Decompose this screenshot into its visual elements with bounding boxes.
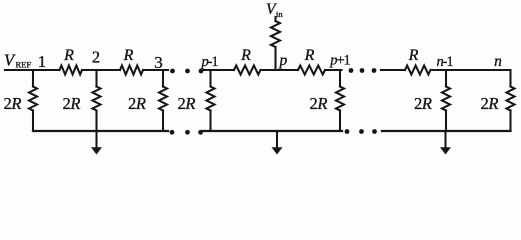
resistor R3 (between node p-1 and node p) [234, 66, 261, 75]
ground arrow below node 2 [91, 131, 102, 155]
svg-text:REF: REF [16, 60, 32, 70]
resistor 2R (node n-1 branch, with its connecting wires) [442, 70, 450, 131]
svg-text:2: 2 [92, 48, 100, 67]
svg-text:n: n [494, 53, 502, 70]
wire top rail: break to R (p-1,p) [204, 69, 234, 71]
svg-text:R: R [123, 47, 134, 64]
svg-text:R: R [304, 47, 315, 64]
svg-text:R: R [240, 47, 251, 64]
svg-text:in: in [276, 9, 283, 19]
ellipsis dots top right [349, 68, 377, 73]
wire bottom rail left segment [33, 130, 168, 132]
wire top rail: node 2 span [82, 69, 120, 71]
wire bottom rail middle segment [202, 130, 342, 132]
ground arrow below node p [272, 131, 283, 155]
svg-text:R: R [408, 47, 419, 64]
resistor R1 (between node 1 and node 2) [60, 66, 83, 75]
wire top rail: node p span [261, 69, 299, 71]
label VREF [4, 51, 31, 70]
wire top rail: node n-1 to node n corner [431, 69, 511, 71]
svg-text:2R: 2R [128, 94, 146, 113]
svg-text:2R: 2R [309, 94, 327, 113]
svg-text:R: R [63, 47, 74, 64]
resistor from Vin source to node p (with connecting wires) [271, 17, 280, 70]
svg-text:2R: 2R [177, 94, 195, 113]
wire bottom rail right segment [382, 130, 511, 132]
wire top rail: node 3 to break [143, 69, 168, 71]
wire top rail: node p+1 to break [325, 69, 342, 71]
svg-text:2R: 2R [480, 94, 498, 113]
svg-text:p-1: p-1 [200, 54, 218, 70]
resistor R4 (between node p and node p+1) [298, 66, 325, 75]
svg-text:2R: 2R [414, 94, 432, 113]
wire top rail: break to R (n-1) [381, 69, 405, 71]
svg-text:1: 1 [38, 52, 47, 71]
svg-text:p+1: p+1 [329, 53, 350, 69]
ellipsis dots top left [170, 69, 203, 74]
svg-text:2R: 2R [3, 94, 21, 113]
svg-text:3: 3 [154, 53, 163, 72]
ellipsis dots bottom right [345, 129, 377, 134]
resistor R2 (between node 2 and node 3) [120, 66, 143, 75]
resistor 2R (node 1 branch, with its connecting wires) [29, 70, 37, 131]
svg-text:p: p [279, 52, 288, 69]
resistor 2R (node 3 branch, with its connecting wires) [159, 70, 167, 131]
wire top rail: Vref stub to R (1-2) [5, 69, 60, 71]
resistor 2R (node n branch, with its connecting wires) [507, 70, 515, 131]
resistor 2R (node p+1 branch, with its connecting wires) [336, 70, 344, 131]
label Vin [266, 1, 283, 19]
svg-text:2R: 2R [62, 94, 80, 113]
ground arrow below node n-1 [440, 131, 451, 155]
resistor 2R (node 2 branch, with its connecting wires) [93, 70, 101, 131]
resistor R5 (before node n-1) [405, 66, 431, 75]
svg-text:n-1: n-1 [436, 54, 453, 70]
ellipsis dots bottom left [170, 130, 203, 135]
resistor 2R (node p-1 branch, with its connecting wires) [207, 70, 215, 131]
